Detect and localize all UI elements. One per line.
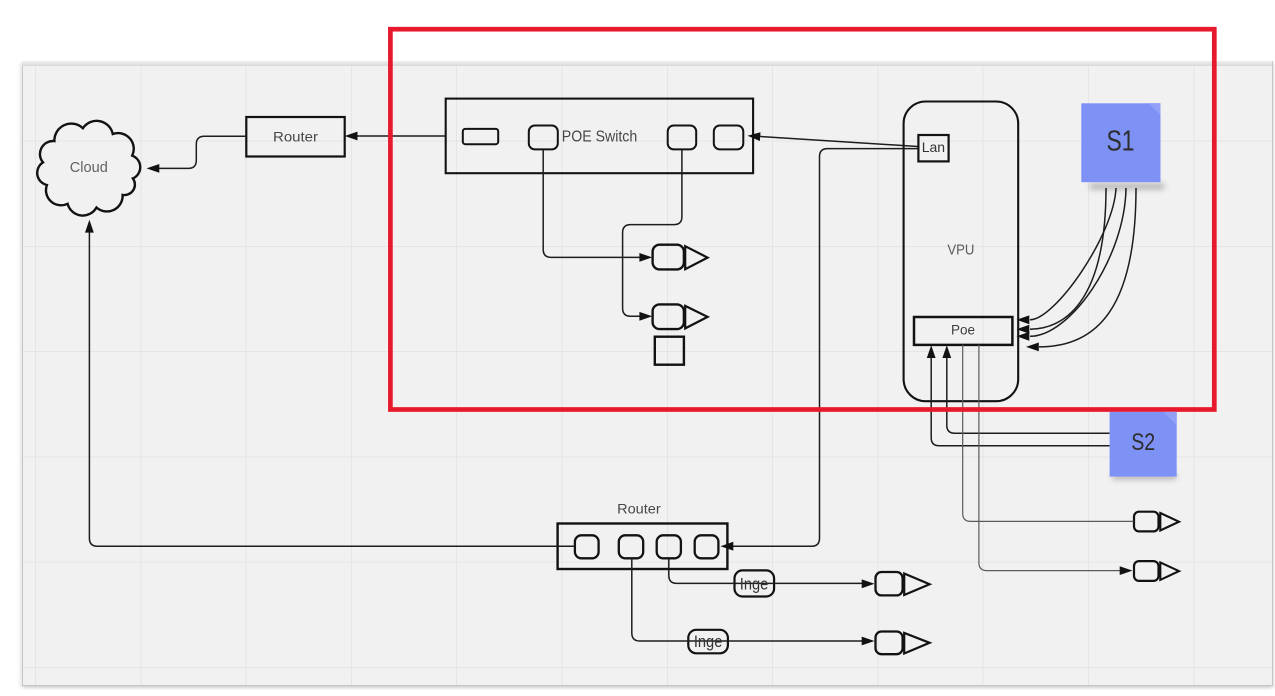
svg-text:S2: S2 (1131, 429, 1155, 456)
svg-text:S1: S1 (1107, 125, 1135, 157)
svg-text:Cloud: Cloud (70, 159, 108, 176)
svg-text:VPU: VPU (947, 243, 974, 259)
svg-text:Router: Router (273, 128, 318, 144)
svg-text:Lan: Lan (922, 139, 945, 155)
svg-text:Poe: Poe (951, 323, 975, 338)
svg-text:Inge: Inge (694, 633, 723, 651)
svg-text:POE Switch: POE Switch (562, 128, 638, 145)
svg-text:Router: Router (617, 501, 661, 517)
svg-text:Inge: Inge (740, 575, 769, 593)
